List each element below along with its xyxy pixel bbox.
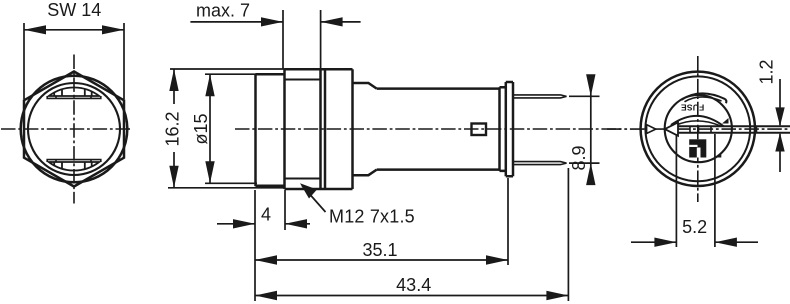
rear view snap ring inner arc [685,97,722,102]
svg-text:35.1: 35.1 [362,240,397,260]
side view nut flat lines [285,80,321,179]
rear view eyebrow outer arc [671,116,724,127]
side view body bottom [377,168,500,171]
rear view terminal blade bars [678,126,790,133]
dimension 1.2 line [779,79,781,172]
front view bezel circle ø15 [21,76,128,183]
dimension ø15 line [209,74,211,183]
side view bottom terminal blade [513,162,567,165]
front view horizontal centerline [1,128,132,130]
side view bezel top and bottom [256,74,285,186]
svg-text:16.2: 16.2 [162,111,182,146]
dimension 4 arrowheads [233,219,307,228]
dimension 35.1 line [255,259,508,261]
lamp segment top hatch ticks [54,89,91,96]
side view top terminal blade [513,95,567,98]
dimension 4 extension lines [255,190,285,301]
svg-text:4: 4 [261,205,271,225]
svg-text:ø15: ø15 [191,113,211,144]
side view body top [377,87,500,90]
side view step cylinder and taper top [353,83,377,89]
dimension SW 14 arrowheads [24,25,124,34]
svg-text:FUSE: FUSE [681,103,705,113]
dimension SW 14 line [24,29,124,31]
rear view terminal block slot [697,148,701,158]
dimension ø15 extension lines [205,74,257,183]
dimension 35.1 arrowheads [255,255,508,264]
rear view outer circle [641,72,755,186]
dimension 43.4 arrowheads [255,291,568,300]
svg-text:SW 14: SW 14 [47,0,101,20]
rear view snap ring top arc [682,93,727,103]
dimension max. 7 lines [190,21,360,23]
dimension 8.9 line [590,75,592,185]
lamp segment bottom upper strip [47,160,101,162]
front view lamp segment top: arc band [49,87,99,96]
leader M12 arrowhead [300,183,317,198]
dimension 16.2 arrowheads [169,69,178,188]
rear view terminal block filled [689,139,706,157]
rear view terminal block white stripe [689,145,697,147]
dimension 16.2 line [173,69,175,188]
dimension 5.2 arrowheads [654,238,737,247]
side view nut / washer / thread outline [285,69,353,189]
svg-text:8.9: 8.9 [569,145,589,170]
side view bezel front face [254,74,257,186]
lamp segment bottom hatch ticks [54,162,91,169]
dimension max. 7 extension lines [283,10,321,69]
dimension ø15 arrowheads [205,74,214,183]
dimension 5.2 extension lines [676,134,715,247]
side view centerline [235,128,622,130]
svg-text:5.2: 5.2 [682,217,707,237]
rear view second circle [645,76,750,181]
dimension 8.9 arrowheads [586,74,595,185]
svg-text:43.4: 43.4 [396,275,431,295]
rear view big hollow arrow [665,122,678,135]
front view vertical centerline [73,55,75,204]
dimension 16.2 extension lines [168,69,290,188]
side view lamp square symbol [472,124,487,136]
rear view small hollow arrow [647,125,656,134]
dimension 43.4 extension line right [567,168,569,301]
rear view small filled triangle [715,153,721,157]
dimension SW 14 extension lines [24,23,124,99]
front view lens rim circle [28,83,120,175]
dimension max. 7 arrowheads [261,17,343,26]
svg-text:1.2: 1.2 [757,59,777,84]
side view end cap [500,82,514,176]
dimension 35.1 extension line right [507,178,509,265]
svg-text:max. 7: max. 7 [196,1,250,21]
rear view horizontal centerline [607,128,790,130]
dimension 5.2 lines [631,241,758,243]
leader M12 7x1.5 [302,186,326,213]
rear view inner circle [665,95,732,162]
front view hex nut outline SW14 [24,72,124,187]
side view step cylinder and taper bottom [353,170,377,176]
lamp segment top lower strip [47,96,101,98]
front view lamp segment bottom: arc band [49,162,99,171]
dimension 43.4 line [255,295,568,297]
rear view eyebrow tab [722,118,729,124]
rear view vertical centerline [697,56,699,202]
rear view eyebrow inner arc [675,121,721,126]
dimension 4 lines [217,223,310,225]
rear view blade bar ticks [690,126,757,133]
dimension 8.9 extension lines [569,96,600,163]
dimension 1.2 arrowheads [775,107,784,151]
svg-text:M12 7x1.5: M12 7x1.5 [329,207,415,227]
